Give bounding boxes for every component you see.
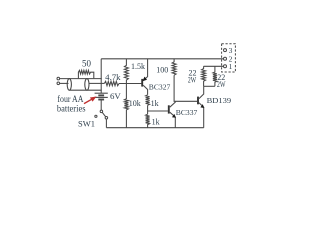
svg-text:3: 3 <box>229 46 233 55</box>
battery B1 plate long 1 <box>95 92 108 94</box>
wire battery minus to switch <box>100 100 102 111</box>
svg-text:BD139: BD139 <box>207 96 232 105</box>
resistor 1k (lower) <box>146 114 150 128</box>
coax shield bottom wire <box>69 89 101 91</box>
output connector dashed box <box>222 44 236 72</box>
connector pin 3 circle <box>224 49 227 52</box>
battery B1 plate short 1 <box>98 94 104 96</box>
switch SW1 throw contact <box>105 116 108 119</box>
wire top supply rail <box>101 58 223 60</box>
svg-text:1k: 1k <box>152 117 160 126</box>
input terminal J1 pin (top) <box>57 77 60 80</box>
resistor 100 <box>172 59 176 75</box>
switch SW1 pole contact <box>100 110 103 113</box>
svg-text:10k: 10k <box>129 99 141 108</box>
svg-text:SW1: SW1 <box>78 119 95 129</box>
switch SW1 lever <box>102 112 105 116</box>
resistor 22 2W left <box>202 66 206 86</box>
svg-text:batteries: batteries <box>57 103 86 113</box>
wire bottom ground rail <box>106 127 203 129</box>
svg-text:1: 1 <box>229 62 233 71</box>
BD139 emitter arrow (NPN) <box>200 104 204 108</box>
BC327 emitter wire <box>143 59 147 81</box>
wire coax centre conductor out <box>89 82 105 84</box>
svg-text:BC337: BC337 <box>176 108 198 117</box>
red annotation arrow <box>84 97 97 104</box>
svg-text:1.5k: 1.5k <box>131 62 145 71</box>
svg-text:2W: 2W <box>217 80 226 89</box>
coax cable right ellipse <box>85 79 89 91</box>
svg-text:BC327: BC327 <box>149 83 171 92</box>
BC327 collector wire <box>143 85 147 95</box>
BD139 collector wire <box>199 86 204 98</box>
svg-text:6V: 6V <box>110 91 122 101</box>
battery B1 plate long 2 <box>95 96 108 98</box>
resistor 1.5k <box>124 59 128 84</box>
svg-text:2W: 2W <box>188 76 197 85</box>
resistor 4.7k <box>104 81 119 85</box>
switch SW1 open contact <box>95 115 97 117</box>
battery B1 plate short 2 <box>98 99 104 101</box>
transistor Q3 BD139 base bar <box>197 97 199 105</box>
wire main left vertical (rail to battery +) <box>100 59 102 93</box>
resistor 1k (upper) <box>146 95 150 106</box>
resistor 50 <box>78 70 93 78</box>
svg-text:1k: 1k <box>151 99 159 108</box>
transistor Q2 BC337 base bar <box>168 105 170 113</box>
BD139 emitter wire <box>199 103 204 128</box>
BC327 emitter arrow (PNP) <box>142 77 147 82</box>
BC337 collector wire <box>170 101 176 107</box>
wire output node to pin 1 <box>204 65 224 67</box>
wire switch to ground rail <box>105 119 107 128</box>
connector pin 1 circle <box>224 65 227 68</box>
wire divider to BC337 base <box>148 110 168 112</box>
svg-text:100: 100 <box>156 65 168 74</box>
resistor 10k <box>124 84 128 128</box>
coax cable left ellipse <box>67 79 71 91</box>
wire 4.7k to BC327 base <box>119 83 141 85</box>
resistor 22 2W right <box>213 66 217 86</box>
transistor Q1 BC327 base bar <box>141 79 143 87</box>
wire 100 down to BD139 base <box>174 75 197 101</box>
wire input bottom to coax centre <box>60 82 69 84</box>
wire 22 bottoms junction <box>204 85 215 87</box>
BC337 emitter wire <box>170 112 176 128</box>
connector pin 2 circle <box>224 57 227 60</box>
wire 1k junction <box>147 105 149 114</box>
svg-text:50: 50 <box>82 58 92 68</box>
input terminal J1 pin (bottom) <box>57 82 60 85</box>
wire input top to coax shield <box>60 78 102 80</box>
BC337 emitter arrow (NPN) <box>172 114 176 118</box>
svg-text:4.7k: 4.7k <box>105 73 120 82</box>
